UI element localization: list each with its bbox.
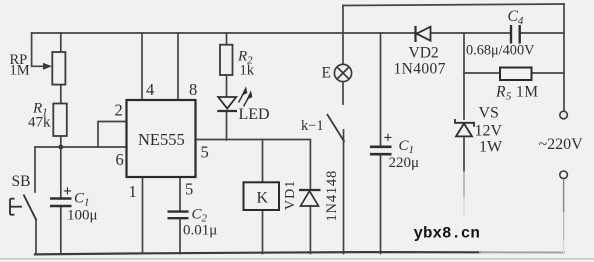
svg-text:E: E <box>322 65 331 82</box>
wire pin 1 to bottom rail <box>142 177 144 254</box>
svg-text:VS: VS <box>479 105 499 122</box>
wire C1 100u to bottom rail <box>60 207 62 254</box>
wire right-side vertical to upper terminal <box>563 4 565 111</box>
svg-text:+: + <box>384 130 393 147</box>
svg-text:NE555: NE555 <box>138 130 185 149</box>
wire VS branch faded lower part <box>463 172 465 198</box>
wire lamp to switch k-1 <box>342 82 344 104</box>
relay K <box>244 182 280 210</box>
svg-text:1k: 1k <box>240 63 255 79</box>
wire RP top <box>60 33 62 52</box>
wire R5 branch horizontal <box>464 72 564 74</box>
svg-text:0.68μ/400V: 0.68μ/400V <box>466 43 535 59</box>
switch k-1 <box>327 114 345 142</box>
svg-text:SB: SB <box>12 173 31 190</box>
node A junction dot <box>58 145 63 150</box>
potentiometer RP <box>52 52 65 85</box>
wire SB lower <box>35 220 37 254</box>
svg-text:VD2: VD2 <box>409 45 439 62</box>
wire VS branch vertical <box>463 33 465 172</box>
svg-text:2: 2 <box>115 101 123 120</box>
wire lamp branch upper <box>342 6 344 65</box>
wire NE555 output pin 3 <box>196 140 311 191</box>
wire SB upper <box>34 147 36 192</box>
svg-text:4: 4 <box>146 80 154 99</box>
wire pin 5 to C2 <box>179 177 181 211</box>
wire top DC rail right segment after C4 <box>520 32 564 34</box>
wire top DC rail left segment <box>32 32 511 34</box>
resistor R2 <box>220 45 233 75</box>
wire lower terminal to bottom rail <box>563 179 565 212</box>
svg-text:1N4007: 1N4007 <box>394 61 446 78</box>
capacitor C1 220u <box>370 147 392 154</box>
wire pins 2-6 node to NE555 <box>35 146 127 148</box>
svg-text:12V: 12V <box>475 123 503 140</box>
diode LED <box>217 97 237 111</box>
terminal lower ~220V <box>560 171 568 179</box>
svg-text:k−1: k−1 <box>301 118 324 134</box>
wire C1 220u branch vertical <box>380 33 382 254</box>
svg-text:ybx8.cn: ybx8.cn <box>414 225 480 243</box>
terminal upper ~220V <box>560 111 568 119</box>
svg-text:220μ: 220μ <box>389 155 420 171</box>
svg-text:LED: LED <box>239 106 270 123</box>
svg-text:6: 6 <box>116 150 124 169</box>
op-amp U1 NE555 <box>127 100 196 177</box>
svg-text:1: 1 <box>129 182 137 201</box>
wire R2 to LED <box>226 75 228 96</box>
diode VD1 <box>299 190 321 206</box>
svg-text:VD1: VD1 <box>283 180 298 210</box>
wire pin 2 <box>98 122 127 148</box>
svg-text:5: 5 <box>185 180 193 199</box>
capacitor C2 <box>168 212 189 219</box>
svg-text:1M: 1M <box>10 63 30 79</box>
wire RP to R1 <box>60 85 62 104</box>
svg-text:8: 8 <box>189 80 197 99</box>
wire R1 to node A <box>60 136 62 147</box>
LED light arrows <box>239 88 252 107</box>
resistor R1 <box>53 104 67 137</box>
wire R2 top <box>226 33 228 45</box>
wire bottom rail <box>35 252 480 254</box>
RP wiper arrow <box>43 63 52 70</box>
wire pin 8 <box>177 33 179 100</box>
diode VD2 <box>416 26 431 42</box>
svg-text:5: 5 <box>201 143 209 162</box>
zener VS <box>455 119 474 136</box>
wire VD1 below <box>309 206 311 254</box>
svg-text:+: + <box>63 183 72 200</box>
svg-text:K: K <box>257 190 269 207</box>
svg-text:1N4148: 1N4148 <box>324 170 340 222</box>
svg-text:0.01μ: 0.01μ <box>183 223 217 239</box>
svg-text:~220V: ~220V <box>539 136 584 153</box>
svg-text:R5 1M: R5 1M <box>495 84 538 103</box>
scan shadow line below bottom rail <box>0 258 594 260</box>
svg-text:1W: 1W <box>479 139 503 156</box>
resistor R5 <box>500 68 532 81</box>
wire top AC rail <box>343 4 564 6</box>
lamp E <box>334 64 351 81</box>
wire node A down to C1 100u <box>60 147 62 198</box>
wire left vertical to RP wiper <box>32 33 43 66</box>
wire C2 to bottom rail <box>179 219 181 254</box>
capacitor C1 100u <box>50 199 72 207</box>
svg-text:100μ: 100μ <box>67 208 98 224</box>
wire pin 4 <box>141 33 143 100</box>
svg-text:47k: 47k <box>28 115 51 131</box>
wire below switch k-1 <box>343 130 345 254</box>
wire K coil branch <box>262 140 264 254</box>
wire LED to output wire <box>226 112 228 140</box>
pushbutton SB <box>10 195 37 221</box>
capacitor C4 <box>511 25 520 44</box>
